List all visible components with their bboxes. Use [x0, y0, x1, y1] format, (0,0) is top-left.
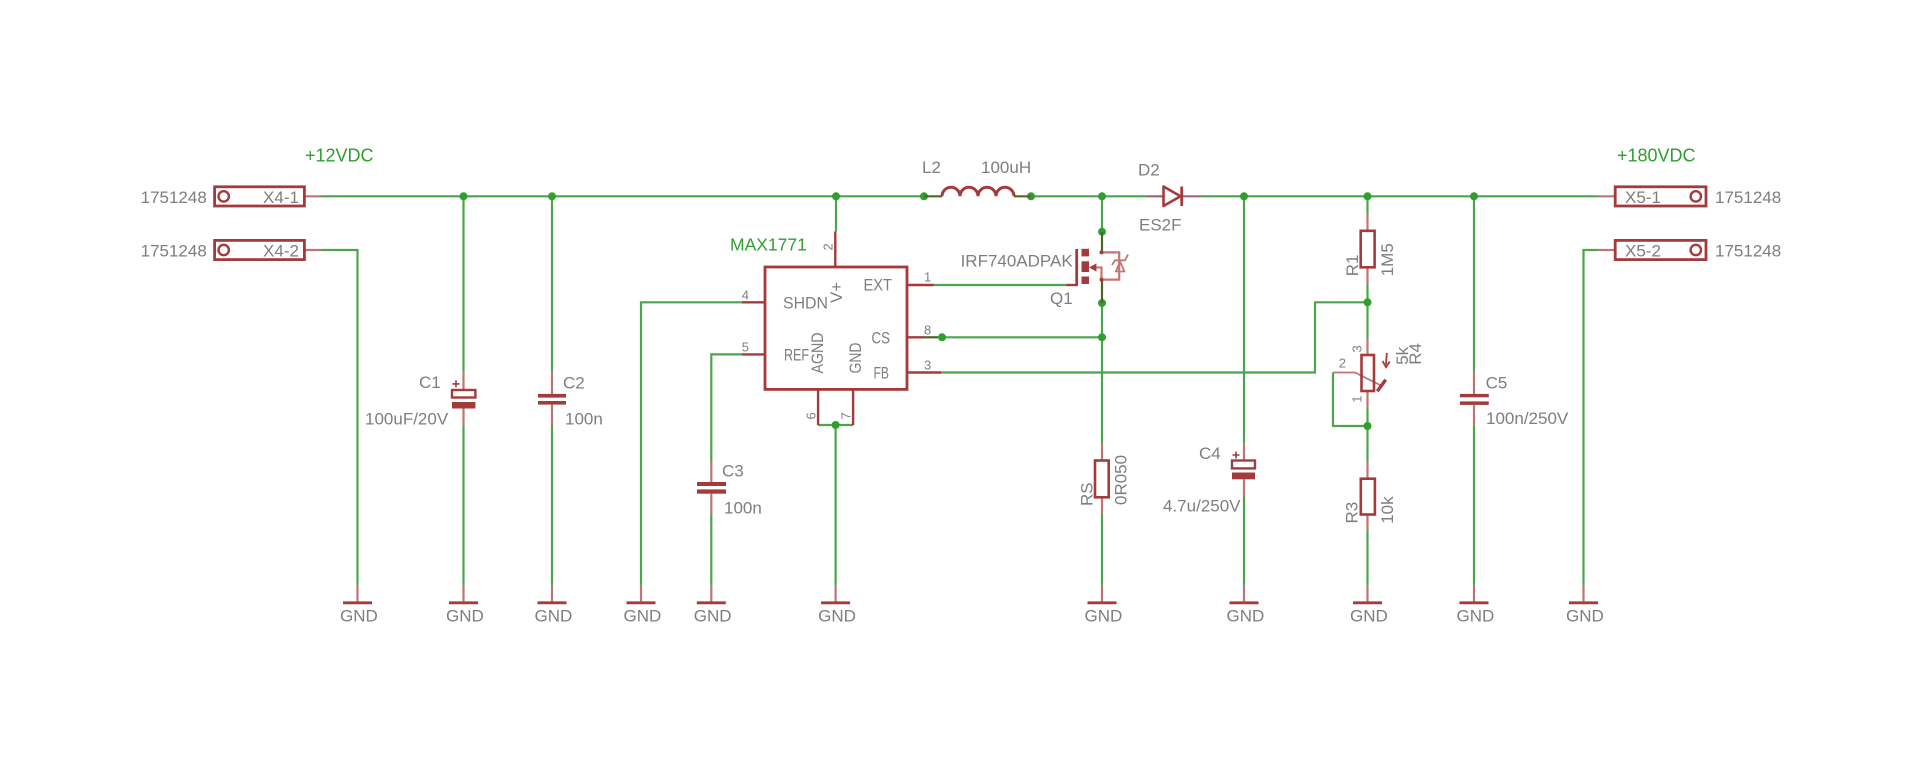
op-amp U1 MAX1771	[730, 232, 941, 426]
svg-text:GND: GND	[340, 607, 378, 626]
connector X4-1	[141, 187, 305, 207]
svg-text:7: 7	[839, 412, 854, 419]
svg-text:REF: REF	[784, 345, 809, 364]
svg-text:X4-1: X4-1	[263, 188, 299, 207]
node CS pin	[938, 333, 946, 341]
svg-text:R3: R3	[1343, 502, 1362, 524]
GND SYMBOLS	[340, 586, 1604, 626]
ground C5	[1457, 586, 1495, 626]
svg-text:100uH: 100uH	[981, 158, 1031, 177]
resistor RS	[1077, 455, 1130, 506]
connector X5-1	[1615, 187, 1781, 207]
svg-text:X4-2: X4-2	[263, 241, 299, 260]
svg-text:V+: V+	[827, 282, 846, 303]
wire CS to RS	[1101, 337, 1103, 443]
pin C4 top	[1243, 443, 1245, 460]
wire CS net	[942, 336, 1102, 338]
pin R4 pin1	[1366, 391, 1368, 408]
svg-text:C3: C3	[722, 461, 744, 480]
wire R1 top	[1366, 196, 1368, 213]
svg-text:100n: 100n	[565, 410, 603, 429]
pin C5 bottom	[1473, 405, 1475, 426]
wire EXT net	[934, 284, 1067, 286]
ground AGND	[818, 586, 856, 626]
svg-text:GND: GND	[624, 607, 662, 626]
pin R3 bottom	[1366, 515, 1368, 531]
wire drain overlap	[1101, 232, 1103, 253]
svg-text:1M5: 1M5	[1378, 243, 1397, 276]
JUNCTION DOTS	[460, 192, 1479, 430]
pin X5-1	[1597, 195, 1615, 197]
pin D2 anode	[1147, 195, 1163, 197]
wire drain	[1101, 196, 1103, 231]
node source pin	[1098, 299, 1106, 307]
svg-text:CS: CS	[872, 328, 891, 347]
svg-text:MAX1771: MAX1771	[730, 235, 807, 255]
svg-text:1751248: 1751248	[141, 188, 207, 207]
svg-text:GND: GND	[535, 607, 573, 626]
svg-text:2: 2	[1339, 356, 1346, 371]
svg-text:+12VDC: +12VDC	[305, 146, 374, 166]
node FB divider	[1364, 298, 1372, 306]
svg-text:GND: GND	[1350, 607, 1388, 626]
svg-text:4.7u/250V: 4.7u/250V	[1163, 496, 1241, 515]
transistor Q1	[961, 249, 1128, 308]
svg-text:+180VDC: +180VDC	[1617, 146, 1696, 166]
svg-text:3: 3	[924, 358, 931, 373]
wire rail mid	[1031, 195, 1147, 197]
node drain pin	[1098, 228, 1106, 236]
svg-text:X5-1: X5-1	[1625, 188, 1661, 207]
pin R3 top	[1366, 461, 1368, 479]
wire C1 branch lower	[462, 425, 464, 585]
pin C3 bottom	[710, 494, 712, 515]
svg-text:GND: GND	[1227, 607, 1265, 626]
wire C3 lower	[710, 514, 712, 585]
node C4 rail	[1240, 192, 1248, 200]
node C1 rail	[460, 192, 468, 200]
pin R4 pin3	[1366, 339, 1368, 356]
svg-text:3: 3	[1350, 345, 1365, 352]
svg-text:6: 6	[804, 412, 819, 419]
pin C3 top	[710, 461, 712, 482]
pin C4 bottom	[1243, 479, 1245, 496]
pin C2 top	[551, 371, 553, 394]
node C2 rail	[548, 192, 556, 200]
svg-text:0R050: 0R050	[1111, 455, 1130, 505]
wire R4 to R3	[1366, 426, 1368, 461]
svg-text:ES2F: ES2F	[1139, 216, 1182, 235]
wire V+ pin2	[835, 196, 837, 231]
diode D2	[1138, 161, 1182, 235]
wire C5 lower	[1473, 425, 1475, 585]
svg-text:1751248: 1751248	[141, 241, 207, 260]
svg-text:Q1: Q1	[1050, 289, 1073, 308]
svg-text:IRF740ADPAK: IRF740ADPAK	[961, 252, 1074, 271]
connector X4-2	[141, 240, 305, 260]
node R1 rail	[1364, 192, 1372, 200]
wire X4-2 to GND1	[321, 250, 358, 586]
svg-text:8: 8	[924, 322, 931, 337]
OVERLAP SEGMENTS	[924, 196, 1201, 337]
wire C1 branch upper	[462, 196, 464, 371]
pin C1 bottom	[462, 409, 464, 426]
svg-text:4: 4	[742, 287, 749, 302]
ground C4	[1227, 586, 1265, 626]
wire FB net	[941, 302, 1368, 372]
wire SHDN net	[641, 302, 742, 585]
wire C4 upper	[1243, 196, 1245, 443]
wire C4 lower	[1243, 497, 1245, 586]
node R4 bottom	[1364, 422, 1372, 430]
svg-text:1: 1	[924, 270, 931, 285]
svg-text:SHDN: SHDN	[783, 293, 828, 312]
svg-text:FB: FB	[874, 364, 890, 383]
pin X4-2	[304, 249, 321, 251]
capacitor C2	[538, 373, 603, 428]
node drain rail	[1098, 192, 1106, 200]
ground X5-2	[1566, 586, 1604, 626]
ground SHDN	[624, 586, 662, 626]
ground R3	[1350, 586, 1388, 626]
wire R3 to GND	[1366, 530, 1368, 585]
svg-text:AGND: AGND	[808, 333, 827, 374]
ground C1	[446, 586, 484, 626]
svg-text:GND: GND	[446, 607, 484, 626]
pin RS bottom	[1101, 497, 1103, 514]
svg-text:RS: RS	[1077, 482, 1096, 506]
pin R4 wiper lead	[1333, 373, 1381, 386]
ground X4-2	[340, 586, 378, 626]
svg-text:5: 5	[742, 340, 749, 355]
pin R1 bottom	[1366, 267, 1368, 284]
svg-text:GND: GND	[1085, 607, 1123, 626]
pin X4-1	[304, 195, 321, 197]
wire L2 right overlap	[1014, 195, 1031, 197]
svg-text:L2: L2	[922, 158, 941, 177]
wire top rail left	[321, 195, 924, 197]
pin C5 top	[1473, 371, 1475, 394]
wire R1 to R4	[1366, 302, 1368, 338]
wire L2 left overlap	[924, 195, 942, 197]
svg-text:R1: R1	[1343, 255, 1362, 277]
connector X5-2	[1615, 240, 1781, 260]
node V+ rail	[832, 192, 840, 200]
svg-text:GND: GND	[818, 607, 856, 626]
pin CS overlap	[924, 336, 938, 338]
svg-text:X5-2: X5-2	[1625, 241, 1661, 260]
svg-text:EXT: EXT	[864, 276, 893, 295]
svg-text:C4: C4	[1199, 444, 1221, 463]
svg-text:C2: C2	[563, 373, 585, 392]
wire C2 branch upper	[551, 196, 553, 371]
wire rail right	[1201, 195, 1597, 197]
svg-text:GND: GND	[846, 343, 865, 374]
wire C2 branch lower	[551, 426, 553, 586]
node agnd	[832, 421, 840, 429]
svg-text:C1: C1	[419, 373, 441, 392]
node L2 right	[1027, 192, 1035, 200]
wire R4 pin1	[1366, 408, 1368, 426]
svg-text:D2: D2	[1138, 161, 1160, 180]
pin D2 cathode	[1183, 195, 1202, 197]
svg-text:GND: GND	[694, 607, 732, 626]
ground RS	[1085, 586, 1123, 626]
wire REF net	[711, 354, 742, 461]
potentiometer R4	[1339, 343, 1425, 403]
node L2 left	[920, 192, 928, 200]
pin R1 top	[1366, 213, 1368, 231]
wire RS to GND	[1101, 515, 1103, 586]
wire X5-2 net	[1584, 250, 1598, 586]
wire C5 upper	[1473, 196, 1475, 371]
pin RS top	[1101, 444, 1103, 461]
capacitor C4	[1163, 444, 1255, 515]
ground C2	[535, 586, 573, 626]
capacitor C5	[1460, 374, 1569, 429]
svg-text:1751248: 1751248	[1715, 188, 1781, 207]
svg-text:R4: R4	[1406, 343, 1425, 365]
pin X5-2	[1597, 249, 1615, 251]
resistor R1	[1343, 231, 1397, 276]
wire agnd down	[834, 425, 836, 586]
resistor R3	[1343, 479, 1398, 524]
svg-text:10k: 10k	[1378, 496, 1397, 524]
node C5 rail	[1470, 192, 1478, 200]
svg-text:GND: GND	[1457, 607, 1495, 626]
svg-text:1751248: 1751248	[1715, 241, 1781, 260]
svg-text:1: 1	[1350, 395, 1365, 402]
wire R1 bottom	[1366, 285, 1368, 303]
node CS source	[1098, 333, 1106, 341]
svg-text:100uF/20V: 100uF/20V	[365, 410, 449, 429]
svg-text:GND: GND	[1566, 607, 1604, 626]
svg-text:2: 2	[821, 243, 836, 250]
wire source to CS	[1101, 303, 1103, 337]
ground C3	[694, 586, 732, 626]
capacitor C1	[365, 373, 475, 429]
PIN STUBS light red	[304, 196, 1615, 530]
pin C2 bottom	[551, 405, 553, 426]
pin C1 top	[462, 372, 464, 390]
wire source overlap	[1101, 280, 1103, 303]
wire wiper loop	[1333, 373, 1368, 427]
svg-text:100n/250V: 100n/250V	[1486, 409, 1569, 428]
wire AGND bracket	[818, 424, 853, 426]
inductor L2	[922, 158, 1031, 196]
capacitor C3	[697, 461, 762, 517]
svg-text:C5: C5	[1486, 374, 1508, 393]
svg-text:100n: 100n	[724, 498, 762, 517]
